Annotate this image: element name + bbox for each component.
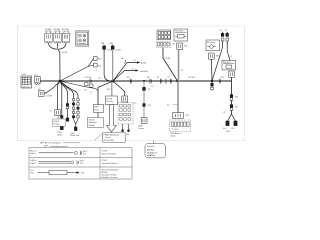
svg-text:Hinweis 1: Hinweis 1	[147, 146, 155, 148]
legend header line 2	[45, 146, 48, 148]
svg-text:WER: WER	[94, 107, 99, 109]
connector plug X7	[122, 96, 128, 102]
connector plug X12	[229, 71, 235, 77]
svg-text:0.5 SW: 0.5 SW	[107, 50, 113, 52]
svg-text:X53: X53	[148, 105, 151, 107]
svg-text:X6: X6	[157, 77, 159, 79]
relay K30 (top box)	[174, 29, 188, 41]
svg-text:2.5: 2.5	[98, 78, 100, 80]
svg-text:X90: X90	[235, 97, 238, 99]
node J2	[112, 80, 115, 83]
svg-text:Relais: Relais	[94, 109, 99, 111]
connector inline C11	[230, 105, 233, 111]
svg-text:Masse: Masse	[58, 135, 63, 137]
wire X9 to J3 (thick gray)	[178, 49, 180, 81]
wire J1 down to ground	[60, 81, 62, 126]
connector inline C3	[143, 87, 146, 90]
svg-text:1.0 SW: 1.0 SW	[115, 50, 121, 52]
wire PB2 to A30	[227, 47, 230, 61]
terminal T3a	[226, 121, 229, 126]
svg-text:Mot.rum: Mot.rum	[30, 150, 37, 153]
border frame	[18, 26, 245, 141]
connector matrix G2 (dashed pin box)	[118, 103, 133, 124]
terminal T2b	[127, 130, 129, 132]
battery G1	[76, 31, 89, 46]
svg-text:2.5 SW: 2.5 SW	[165, 58, 171, 60]
svg-text:2.5R GE: 2.5R GE	[45, 31, 53, 33]
wire X11 to J4	[210, 59, 213, 81]
svg-text:Startspaer. Getriebe: Startspaer. Getriebe	[102, 174, 117, 177]
svg-text:X62: X62	[184, 45, 187, 47]
svg-text:Schalter: Schalter	[89, 124, 96, 127]
svg-text:87: 87	[225, 30, 227, 32]
connector plug X5	[39, 91, 44, 97]
svg-text:X80: X80	[216, 56, 219, 58]
svg-text:X42: X42	[147, 77, 150, 79]
wire K2 to B7	[97, 113, 99, 118]
connector plug X1 (top-left trio)	[45, 32, 52, 43]
connector inline C1a	[61, 116, 64, 121]
svg-text:4.0: 4.0	[167, 105, 169, 107]
svg-text:2.5R GE: 2.5R GE	[54, 31, 62, 33]
connector chain K1 (stacked pairs)	[72, 98, 79, 119]
svg-text:Forb.: Forb.	[81, 172, 85, 174]
connector tick C8 on bus	[171, 79, 172, 84]
svg-text:Kabelbaum. Schema: Kabelbaum. Schema	[102, 177, 118, 179]
wire P2 to J2 (gray vertical)	[112, 49, 114, 81]
wire J1 to chain column A	[60, 81, 74, 98]
svg-text:31-1: 31-1	[83, 154, 86, 156]
wire split to terminals	[228, 114, 232, 121]
svg-text:2.5: 2.5	[95, 70, 97, 72]
svg-text:G107: G107	[226, 131, 230, 133]
wire J1 to chain column B	[60, 81, 78, 98]
svg-text:4T'N D: 4T'N D	[102, 160, 108, 162]
svg-text:+ Consult: + Consult	[104, 136, 112, 139]
pin terminal P1 (top middle left)	[103, 45, 106, 50]
svg-text:ning: ning	[30, 173, 33, 175]
fuse F11 + F12 inline on J1 lower-right branch	[60, 81, 98, 92]
svg-text:X44: X44	[221, 77, 224, 79]
svg-text:X91: X91	[235, 107, 238, 109]
svg-text:X70: X70	[186, 115, 189, 117]
terminal GND1	[60, 126, 63, 130]
svg-text:1.0: 1.0	[151, 86, 153, 88]
svg-text:0.75 SW: 0.75 SW	[188, 77, 195, 79]
svg-text:Sperre: Sperre	[171, 135, 176, 138]
connector row XR2 (dashed, bottom)	[170, 120, 191, 131]
terminal T3b	[234, 121, 237, 126]
svg-text:Sicherung: Sicherung	[22, 85, 30, 88]
wire X12 through bus corner down	[231, 77, 233, 114]
wire G2 tails	[123, 124, 129, 130]
svg-text:4T65: 4T65	[107, 89, 111, 91]
sensor B30 (right top box)	[206, 40, 220, 51]
svg-text:X17: X17	[38, 89, 41, 91]
node J4	[211, 80, 213, 82]
svg-text:0.5: 0.5	[134, 60, 136, 62]
connector plug X10 (wide, bottom of J3)	[173, 113, 184, 119]
wire J2 down-right to X7	[113, 81, 125, 96]
wire J1 to X5 (down-left)	[44, 81, 60, 93]
connector plug X2 (top-left trio)	[54, 32, 61, 43]
diode assembly V1 (tiny boxes up-right of J1)	[60, 67, 88, 82]
svg-text:mit AT-Ver.: mit AT-Ver.	[147, 154, 156, 157]
svg-text:1.5: 1.5	[223, 112, 225, 114]
connector stub below J4	[211, 81, 214, 91]
svg-text:0.75 GR: 0.75 GR	[85, 77, 92, 79]
connector plug X4 (bus left end)	[35, 77, 41, 85]
connector plug X6 (below J1, x57)	[58, 81, 61, 110]
svg-text:Kabel 1: Kabel 1	[30, 153, 36, 155]
svg-text:0.5: 0.5	[132, 68, 134, 70]
wire XR1 to J3	[163, 48, 178, 81]
svg-text:Schalter: Schalter	[53, 122, 60, 125]
wire J3 down (thick gray)	[177, 81, 179, 113]
svg-text:2.5: 2.5	[230, 56, 232, 58]
svg-text:F11: F11	[84, 89, 87, 91]
svg-text:X41: X41	[127, 77, 130, 79]
wire J2 arrow callout upper	[113, 63, 137, 82]
svg-text:(P/S 28-995L): (P/S 28-995L)	[104, 140, 115, 142]
svg-text:X52: X52	[148, 89, 151, 91]
svg-text:S301 A: S301 A	[89, 119, 96, 122]
terminal T1	[74, 127, 77, 131]
svg-text:Getriebe nur: Getriebe nur	[147, 151, 157, 154]
svg-text:BP 70: BP 70	[83, 151, 87, 153]
terminal T2a	[121, 130, 123, 132]
wire P1 to J2 (curved)	[104, 49, 113, 81]
arrow A1	[137, 61, 140, 63]
wire J2 arrow callout lower	[113, 71, 136, 82]
wire J2 down to gearbox module	[111, 81, 113, 96]
connector inline C4	[143, 104, 145, 107]
svg-text:S30: S30	[126, 134, 129, 136]
relay K2 (WER box)	[94, 105, 104, 113]
svg-text:X125: X125	[22, 74, 26, 76]
svg-text:1 2 3 4 5 6: 1 2 3 4 5 6	[171, 129, 179, 131]
legend table	[29, 148, 132, 179]
svg-text:A-500: A-500	[141, 62, 146, 65]
svg-text:4.0: 4.0	[181, 69, 183, 71]
arrow A2	[136, 69, 139, 71]
legend header line 1	[41, 142, 44, 144]
leader to PRND	[95, 133, 103, 140]
svg-text:F23: F23	[98, 59, 101, 61]
wire main bus	[40, 80, 232, 82]
svg-text:0.75 BR: 0.75 BR	[46, 95, 53, 97]
svg-text:1.5: 1.5	[90, 92, 92, 94]
pin pair PB2 (top right)	[226, 32, 229, 47]
connector plug X8 (bottom of x144)	[141, 118, 147, 124]
connector inline C1b	[66, 104, 69, 109]
connector tick on bus	[90, 79, 91, 84]
node J5	[143, 80, 145, 82]
pin terminal P2 (top middle right)	[111, 45, 114, 50]
connector tick C7 on bus	[165, 79, 167, 84]
svg-text:30: 30	[220, 30, 222, 32]
svg-text:31-2: 31-2	[80, 163, 83, 165]
svg-text:Ryknin. Hovedstrbr.: Ryknin. Hovedstrbr.	[102, 153, 117, 156]
svg-text:Tw-NH-St: Tw-NH-St	[140, 70, 149, 73]
connector plug X9 (below K30)	[177, 43, 183, 49]
svg-text:Pumpe: Pumpe	[139, 128, 144, 130]
svg-text:X61: X61	[172, 43, 175, 45]
svg-text:K20 Relais: K20 Relais	[175, 31, 183, 33]
svg-text:Kabel 2: Kabel 2	[30, 163, 36, 165]
svg-text:A30 St.G: A30 St.G	[223, 61, 231, 64]
callout note N1	[153, 141, 155, 144]
wire J2 down-left to relay K2	[98, 81, 113, 105]
svg-text:4T'N B: 4T'N B	[102, 151, 108, 153]
connector tick C2 on bus	[131, 79, 132, 84]
svg-text:BP 70: BP 70	[80, 161, 84, 163]
svg-text:Uden Varmekabelforb.: Uden Varmekabelforb.	[102, 168, 119, 171]
hollow arrow D1	[107, 105, 117, 132]
connector inline C10	[230, 95, 233, 101]
wire PB1 to J4	[212, 47, 223, 81]
fuse box F30 (top, with pin row)	[157, 30, 171, 40]
svg-text:0.75: 0.75	[133, 103, 136, 105]
svg-text:Getriebe: Getriebe	[106, 100, 113, 103]
svg-text:4T65-E: 4T65-E	[106, 98, 113, 100]
label box PRND	[103, 133, 126, 142]
connector tick C6 on bus	[161, 79, 162, 84]
svg-text:Masse Getr.: Masse Getr.	[71, 134, 81, 137]
module M1 (4T65E box)	[106, 96, 118, 105]
node J3	[176, 80, 179, 83]
svg-text:F24: F24	[98, 65, 101, 67]
connector plug X3 (top-left trio)	[62, 32, 69, 43]
svg-text:X7: X7	[168, 77, 170, 79]
wire V-merge of chain	[74, 119, 79, 124]
svg-text:X9: X9	[50, 111, 52, 113]
wire J1 to stub x67.5	[60, 81, 68, 118]
svg-text:B30 Geber: B30 Geber	[207, 41, 216, 44]
node J1	[59, 80, 62, 83]
svg-text:Tastaturforb. Batterie: Tastaturforb. Batterie	[102, 162, 118, 165]
wire drop S at x144 (gray)	[143, 81, 145, 118]
connector block XS (left grid box)	[21, 76, 32, 88]
control unit A30 (right box)	[222, 61, 236, 70]
connector plug X11	[209, 53, 215, 59]
box label B7	[88, 117, 104, 127]
pin pair PB1 (top right)	[221, 32, 224, 47]
connector tick C5 on bus	[150, 79, 151, 84]
svg-text:X40: X40	[121, 58, 124, 60]
svg-text:1.5R GE: 1.5R GE	[62, 31, 70, 33]
svg-text:4.0 SW: 4.0 SW	[62, 52, 68, 54]
connector tick on A1 branch	[125, 60, 126, 64]
terminal T0	[66, 118, 69, 121]
svg-text:BP 70 Forbindelse: BP 70 Forbindelse	[45, 142, 61, 145]
svg-text:Kabelstr.: Kabelstr.	[147, 149, 155, 152]
svg-text:X30: X30	[34, 75, 37, 77]
box label B6	[53, 119, 66, 126]
wire merge from X1..X3 down	[49, 43, 67, 81]
connector row XR1	[156, 41, 170, 47]
connector tick C9 on bus	[220, 79, 221, 84]
